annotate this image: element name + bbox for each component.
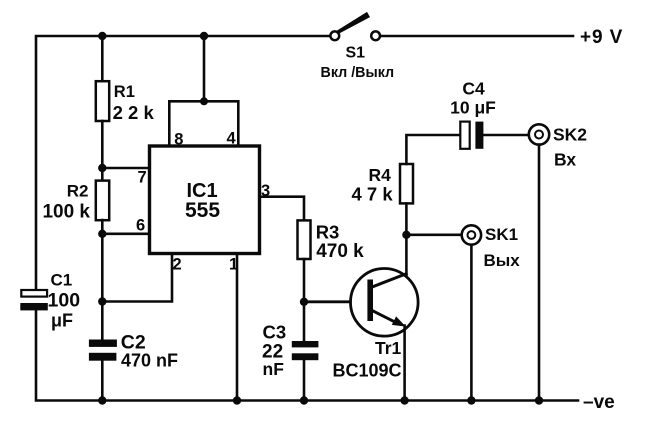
svg-text:Вых: Вых — [484, 251, 521, 270]
wire C3 bottom to rail — [303, 360, 306, 400]
label R1 value — [113, 83, 155, 123]
svg-text:R1: R1 — [114, 83, 135, 101]
wire top rail right segment — [380, 35, 573, 38]
switch S1 — [330, 12, 380, 40]
node junction pin1 bottom rail — [233, 396, 241, 404]
resistor R4 — [400, 164, 413, 203]
wire IC supply drop — [203, 36, 206, 101]
svg-text:100: 100 — [48, 290, 81, 312]
capacitor C4 — [460, 122, 483, 149]
wire collector node to SK1 — [406, 234, 461, 237]
node junction pin6 — [98, 230, 106, 238]
svg-text:+9 V: +9 V — [580, 27, 623, 48]
wire pin 1 to bottom rail — [236, 254, 239, 401]
wire pin 7 — [102, 167, 149, 170]
capacitor C1 — [20, 290, 48, 310]
label R4 value — [352, 165, 394, 205]
label R2 value — [42, 182, 90, 223]
svg-text:R3: R3 — [316, 222, 340, 243]
label R3 value — [316, 222, 364, 263]
transistor Q1 Tr1 — [351, 269, 419, 337]
wire pins 8-4 bracket — [169, 101, 238, 146]
resistor R3 — [298, 220, 311, 259]
wire pin 6 — [102, 233, 149, 236]
node junction C2/pin2 — [98, 297, 106, 305]
svg-text:470 nF: 470 nF — [121, 351, 178, 371]
node junction C3 bottom rail — [300, 396, 308, 404]
wire R4 top to C4 — [406, 135, 460, 164]
node junction collector/R4/SK1 — [402, 231, 410, 239]
svg-text:–ve: –ve — [583, 392, 615, 413]
node junction SK2 bottom rail — [535, 396, 543, 404]
node junction bracket top — [200, 97, 208, 105]
node junction dot IC supply top rail — [200, 32, 208, 40]
wire SK1 down to rail — [470, 245, 473, 401]
wire C2 bottom to rail — [101, 361, 104, 401]
svg-text:C4: C4 — [462, 79, 485, 99]
capacitor C2 — [89, 340, 117, 361]
wire collector up — [405, 235, 408, 275]
svg-text:10 μF: 10 μF — [450, 98, 496, 118]
wire R1 bottom to R2 top — [101, 121, 104, 181]
node junction emitter bottom rail — [400, 396, 408, 404]
wire R2 bottom to C2 top — [101, 220, 104, 340]
wire emitter down — [403, 326, 406, 401]
wire SK2 down to rail — [538, 145, 541, 401]
resistor R1 — [96, 81, 109, 121]
op-amp U1 IC1 555 box — [150, 146, 260, 254]
svg-text:R4: R4 — [369, 165, 392, 185]
wire pin 3 to R3 — [260, 197, 305, 221]
svg-text:555: 555 — [185, 199, 220, 222]
svg-text:8: 8 — [174, 130, 183, 148]
svg-text:Tr1: Tr1 — [375, 338, 402, 358]
wire transistor base — [304, 300, 369, 303]
svg-text:nF: nF — [263, 359, 285, 379]
connector SK2 — [529, 124, 549, 144]
label C2 value — [121, 332, 178, 371]
wire R4 bottom to collector node — [405, 204, 408, 235]
svg-text:4 7 k: 4 7 k — [352, 184, 394, 205]
node junction base — [300, 298, 308, 306]
wire top rail left segment with left corner — [36, 36, 330, 290]
resistor R2 — [96, 181, 109, 221]
svg-text:C1: C1 — [51, 271, 73, 290]
wire C4 to SK2 — [483, 134, 528, 137]
svg-text:Вх: Вх — [554, 150, 576, 170]
svg-text:Вкл /Выкл: Вкл /Выкл — [321, 65, 395, 81]
svg-text:μF: μF — [51, 311, 73, 331]
node junction C2 bottom rail — [98, 396, 106, 404]
svg-text:BC109C: BC109C — [333, 361, 402, 381]
node junction pin7 — [98, 164, 106, 172]
label C4 value — [450, 79, 496, 118]
label C3 value — [262, 322, 286, 380]
svg-text:7: 7 — [138, 169, 147, 187]
connector SK1 — [462, 225, 481, 244]
svg-text:4: 4 — [227, 130, 237, 148]
svg-text:SK2: SK2 — [553, 125, 587, 145]
svg-text:SK1: SK1 — [485, 225, 518, 244]
svg-text:100 k: 100 k — [42, 202, 90, 223]
svg-text:6: 6 — [136, 217, 145, 235]
svg-text:470 k: 470 k — [316, 241, 364, 262]
wire pin 2 path — [102, 254, 172, 302]
wire bottom rail with left corner — [36, 311, 578, 401]
svg-text:R2: R2 — [67, 182, 89, 201]
wire R1 branch from top rail — [101, 36, 104, 82]
svg-text:C3: C3 — [263, 322, 287, 343]
node junction SK1 bottom rail — [467, 396, 475, 404]
node junction dot R1 top rail — [98, 32, 106, 40]
svg-text:2: 2 — [173, 256, 182, 274]
capacitor C3 — [292, 341, 319, 360]
wire R3 bottom to C3 — [303, 259, 306, 341]
svg-text:S1: S1 — [346, 45, 366, 62]
label C1 value — [48, 271, 81, 331]
svg-text:2 2 k: 2 2 k — [113, 102, 155, 123]
